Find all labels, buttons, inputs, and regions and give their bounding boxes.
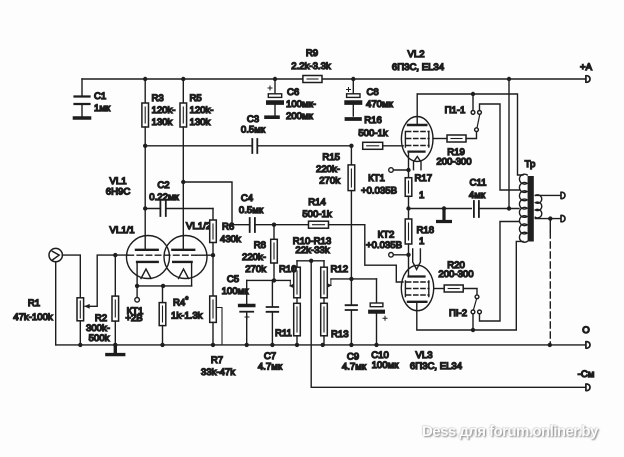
svg-text:4мк: 4мк [469, 190, 486, 201]
svg-text:1: 1 [419, 236, 424, 247]
heater VL3 [413, 249, 421, 270]
watermark [422, 423, 622, 440]
svg-text:500k: 500k [89, 333, 110, 344]
ground (below C6) [266, 115, 278, 119]
svg-text:C8: C8 [367, 87, 379, 98]
svg-text:R13: R13 [331, 329, 349, 340]
capacitor C7 [267, 280, 279, 345]
svg-text:6П3С, EL34: 6П3С, EL34 [410, 361, 463, 372]
svg-text:R1: R1 [28, 298, 40, 309]
switch П1-1 [466, 94, 519, 190]
resistor R5 [180, 79, 187, 182]
svg-text:R16: R16 [364, 115, 382, 126]
resistor R8 [271, 225, 278, 281]
svg-text:-См: -См [578, 369, 595, 380]
resistor R17 [405, 170, 412, 219]
terminal secondary top [561, 192, 565, 198]
potentiometer R12 [321, 261, 332, 304]
pentode VL2 screen grid [407, 131, 430, 133]
transformer Tp core [528, 176, 534, 242]
wire VL1/1 anode vertical [144, 146, 146, 250]
wire input to R1 top [62, 255, 80, 298]
svg-text:VL3: VL3 [415, 350, 432, 361]
test point KT2 (+0.035V) [389, 253, 409, 258]
svg-text:100мк-: 100мк- [286, 99, 316, 110]
svg-text:2.2k-3.3k: 2.2k-3.3k [291, 61, 331, 72]
capacitor C4 [250, 218, 309, 232]
svg-text:VL2: VL2 [407, 49, 424, 60]
pentode VL2 anode [408, 124, 426, 126]
heater VL1/1 [141, 269, 151, 279]
svg-text:ПI-2: ПI-2 [449, 308, 467, 319]
wire bias node (C5,C7,R8,R10 wiper) [247, 279, 291, 281]
wire VL3 anode to transformer bottom [417, 241, 523, 330]
triode VL1/1 anode [136, 249, 158, 251]
svg-text:VL1/1: VL1/1 [110, 225, 135, 236]
svg-text:0.5мк: 0.5мк [241, 125, 266, 136]
ground (main, below rail at R2) [107, 345, 124, 355]
cathode VL2 [409, 151, 425, 153]
resistor R6 [210, 209, 217, 297]
terminal O [586, 342, 590, 349]
svg-text:+0.035В: +0.035В [366, 240, 402, 251]
svg-text:Тр: Тр [525, 159, 536, 170]
svg-text:R7: R7 [211, 355, 223, 366]
wire bottom ground rail [56, 344, 586, 346]
tube VL2 envelope [401, 117, 433, 162]
svg-text:120k-: 120k- [190, 105, 214, 116]
svg-text:500-1k: 500-1k [302, 209, 332, 220]
capacitor C11 [474, 201, 519, 217]
ground (cathode node) [438, 209, 451, 222]
svg-text:C2: C2 [157, 180, 169, 191]
terminal input connector [49, 248, 62, 261]
svg-text:R8: R8 [254, 240, 266, 251]
capacitor C2 [145, 201, 213, 216]
resistor R3 [142, 79, 149, 146]
svg-text:C6: C6 [287, 87, 299, 98]
wire feedback (dashed) to ground rail [549, 219, 551, 232]
resistor R15 [348, 146, 355, 279]
svg-text:200-300: 200-300 [438, 269, 473, 280]
heater VL2 [414, 157, 422, 170]
capacitor C9 [346, 279, 357, 345]
svg-text:200-300: 200-300 [436, 157, 471, 168]
wire VL1/2 grid to R6 node [196, 254, 213, 256]
svg-text:500-1k: 500-1k [358, 128, 388, 139]
test point KT1 (+0.035V) [389, 168, 409, 173]
wire top B+ rail [82, 78, 586, 80]
wire bias bus (R10/R12 tops) [297, 260, 324, 262]
transformer primary winding [519, 174, 527, 242]
svg-text:270k: 270k [319, 176, 340, 187]
svg-text:470мк: 470мк [366, 99, 394, 110]
resistor R16 [363, 142, 404, 149]
resistor R19 [433, 135, 466, 142]
beam plates VL3 [405, 281, 428, 297]
svg-text:R6: R6 [222, 222, 234, 233]
terminal -Cm [586, 384, 590, 391]
tube VL1 envelope (two triode circles) [127, 236, 170, 279]
svg-text:220k-: 220k- [242, 252, 266, 263]
tube VL3 envelope [401, 265, 433, 310]
capacitor C6 (electrolytic) [268, 79, 282, 115]
svg-text:C11: C11 [470, 178, 487, 189]
ground (below C1) [75, 116, 90, 120]
svg-text:R11: R11 [275, 328, 292, 339]
svg-text:+2В: +2В [125, 313, 142, 324]
switch П1-2 [471, 222, 519, 331]
svg-text:R17: R17 [415, 173, 433, 184]
wire secondary bottom lead [535, 217, 561, 218]
pentode VL3 anode [408, 301, 426, 303]
svg-text:6П3С, EL34: 6П3С, EL34 [392, 62, 445, 73]
wire VL2 anode to transformer top [417, 94, 523, 175]
potentiometer R1 [77, 255, 128, 345]
resistor R13 [321, 303, 328, 345]
ground (below C8) [347, 117, 360, 121]
svg-text:100мк: 100мк [222, 286, 250, 297]
potentiometer R10 [289, 261, 300, 304]
svg-text:1: 1 [419, 190, 424, 201]
resistor R18 [405, 219, 412, 277]
svg-text:C5: C5 [227, 274, 239, 285]
wire VL1/2 anode vertical from R5 [182, 182, 184, 250]
svg-text:33k-47k: 33k-47k [201, 367, 235, 378]
resistor R2 [112, 255, 119, 345]
wire +A feed to transformer centre tap [508, 79, 510, 209]
svg-text:6Н9С: 6Н9С [106, 187, 131, 198]
resistor R14 [309, 221, 329, 228]
svg-text:C7: C7 [264, 351, 276, 362]
svg-text:22k-33k: 22k-33k [295, 245, 329, 256]
svg-text:1мк: 1мк [94, 103, 111, 114]
resistor R4 [159, 286, 166, 345]
svg-text:П1-1: П1-1 [445, 105, 466, 116]
heater VL1/2 [179, 269, 189, 279]
svg-text:200мк: 200мк [286, 111, 314, 122]
svg-text:130k: 130k [190, 117, 211, 128]
cathode VL1/2 [173, 261, 191, 263]
wire input ground leg [55, 262, 57, 345]
svg-text:O: O [582, 325, 589, 336]
svg-text:0.22мк: 0.22мк [149, 192, 179, 203]
resistor R20 [434, 285, 477, 295]
svg-text:C4: C4 [241, 193, 254, 204]
svg-text:КТ2: КТ2 [378, 230, 395, 241]
cathode VL3 [409, 275, 425, 277]
wire C3 node to R16 and VL2 grid [349, 144, 353, 148]
svg-text:VL1: VL1 [109, 176, 126, 187]
capacitor C10 (electrolytic) [370, 279, 387, 345]
svg-text:+A: +A [580, 62, 593, 73]
pentode VL2 third grid row [407, 145, 430, 147]
pentode VL3 grid rows [407, 281, 430, 283]
svg-text:КТ1: КТ1 [368, 173, 385, 184]
beam plates VL2 [405, 132, 428, 148]
svg-text:C1: C1 [94, 91, 106, 102]
svg-text:270k: 270k [245, 264, 266, 275]
wire bias feed to -Cm rail [310, 261, 312, 388]
svg-text:R14: R14 [308, 197, 326, 208]
svg-text:VL1/2: VL1/2 [186, 221, 211, 232]
capacitor C8 (electrolytic) [347, 79, 361, 116]
resistor R7 (preset) [210, 296, 222, 345]
wire secondary top lead [535, 194, 561, 196]
svg-text:R18: R18 [417, 225, 435, 236]
svg-text:130k: 130k [152, 117, 173, 128]
wire cathode ground node [409, 208, 472, 210]
capacitor C3 [252, 139, 351, 153]
grid line VL1 (dashed inside tubes) [128, 254, 196, 256]
wire VL1/1 anode node to C3 [145, 145, 252, 147]
resistor R11 [294, 303, 301, 345]
test point KT1 (+2V) [135, 286, 140, 302]
svg-text:R4*: R4* [173, 296, 188, 309]
wire R14 to VL3 grid [329, 225, 404, 282]
wire -Cm rail [311, 386, 586, 388]
svg-text:R9: R9 [306, 48, 318, 59]
svg-text:R12: R12 [331, 264, 349, 275]
svg-text:R3: R3 [152, 93, 164, 104]
svg-text:4.7мк: 4.7мк [342, 362, 367, 373]
svg-text:R10: R10 [279, 264, 297, 275]
svg-text:1k-1.3k: 1k-1.3k [171, 311, 203, 322]
svg-text:47k-100k: 47k-100k [13, 312, 53, 323]
svg-text:430k: 430k [220, 234, 241, 245]
wire VL3 bias node (R12 wiper, C9, C10) [331, 278, 377, 280]
svg-text:0.5мк: 0.5мк [239, 205, 264, 216]
svg-text:+0.035В: +0.035В [361, 186, 397, 197]
capacitor C1 [75, 79, 90, 117]
wire VL1 cathode bus [137, 285, 192, 287]
pentode VL2 control grid row [407, 138, 430, 140]
svg-text:120k-: 120k- [152, 105, 176, 116]
wire VL1/2 anode node to C4 [183, 182, 249, 225]
svg-text:R5: R5 [190, 93, 202, 104]
triode VL1/2 anode [172, 249, 194, 251]
terminal +A [586, 76, 590, 83]
capacitor C5 (electrolytic) [240, 280, 254, 345]
svg-text:4.7мк: 4.7мк [258, 362, 283, 373]
cathode VL1/1 [137, 261, 158, 263]
node top rail junctions [143, 77, 511, 81]
resistor R9 [303, 76, 322, 83]
svg-text:220k-: 220k- [316, 164, 340, 175]
svg-text:R15: R15 [322, 152, 340, 163]
terminal secondary bottom [561, 215, 565, 221]
svg-text:100мк: 100мк [372, 360, 400, 371]
transformer secondary winding [535, 195, 541, 218]
svg-text:C3: C3 [247, 114, 259, 125]
